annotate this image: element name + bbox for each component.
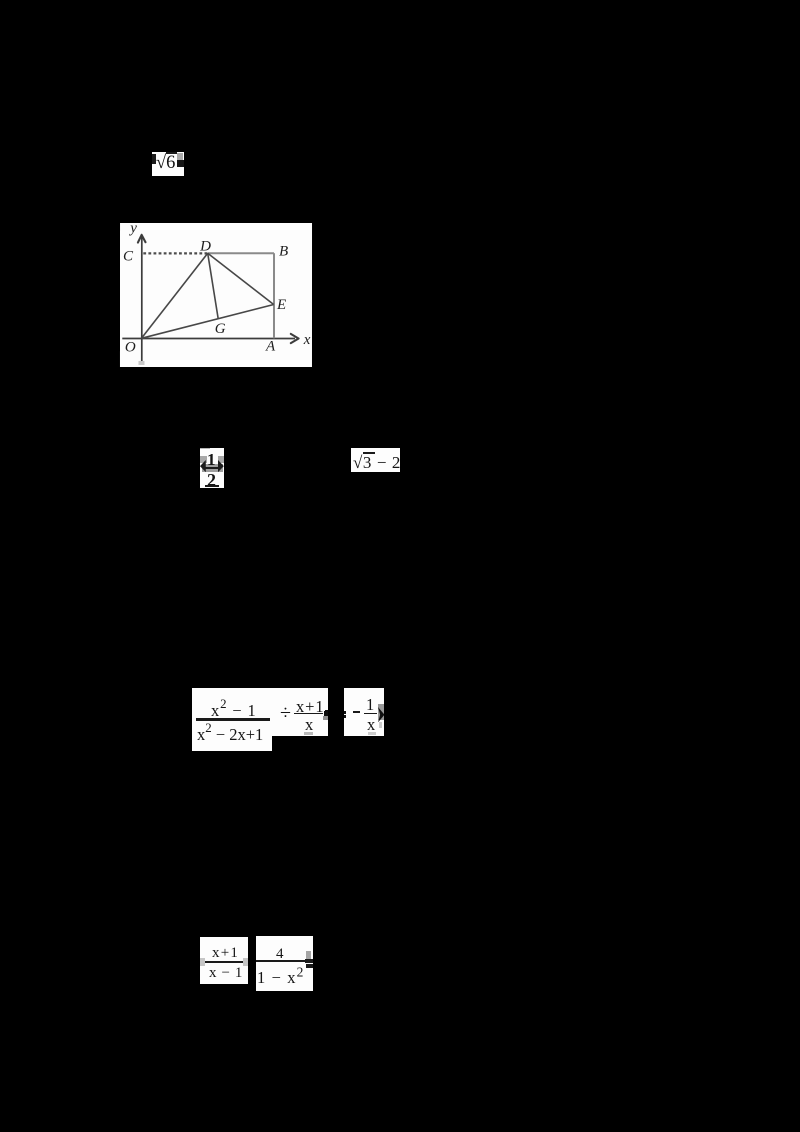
left arrowhead xyxy=(200,460,206,472)
fraction bar of 1/x xyxy=(364,713,378,714)
gray top edge xyxy=(200,448,210,450)
clipped glyph nubs at left edge xyxy=(344,711,346,714)
denominator x xyxy=(305,717,313,734)
gray arrow shaft xyxy=(202,464,223,472)
gray smudge left xyxy=(200,958,206,966)
gray band left xyxy=(200,456,207,463)
gray band right xyxy=(218,456,224,463)
y-axis gray stub at bottom xyxy=(138,360,144,364)
small fraction bar xyxy=(294,713,324,715)
svg-text:G: G xyxy=(214,320,225,336)
formula image: 2√6 xyxy=(152,152,184,176)
rectangle side BA (right) xyxy=(272,253,274,338)
gray square under x xyxy=(368,732,376,735)
fraction bar xyxy=(196,718,270,720)
geometry figure: rectangle OABC with D,E,G xyxy=(119,222,312,366)
numerator x²−1 xyxy=(211,703,257,720)
line DG xyxy=(207,253,218,319)
gray block top-right of √6 patch xyxy=(177,153,183,160)
numerator 1 xyxy=(207,451,216,468)
svg-text:x: x xyxy=(302,331,310,347)
light gray block bottom right xyxy=(379,722,383,728)
denominator 1 − x² xyxy=(257,969,304,986)
vinculum over 3 xyxy=(363,452,375,454)
underline below 2 xyxy=(205,485,220,487)
gray square below blob xyxy=(323,716,328,720)
gray column right edge xyxy=(378,704,384,720)
clipped glyph left of √6 xyxy=(152,154,156,163)
numerator 1 xyxy=(366,697,374,714)
formula image: − 1/x with bold bracket xyxy=(344,688,384,736)
svg-text:D: D xyxy=(199,238,211,254)
denominator x − 1 xyxy=(209,966,243,981)
division sign xyxy=(280,703,291,723)
fraction bar of 1/2 xyxy=(204,467,220,469)
formula image: (x²−1)/(x²−2x+1) ÷ (x+1)/x xyxy=(192,688,328,736)
right arrowhead xyxy=(218,460,224,472)
formula image: (x+1)/(x−1) xyxy=(200,937,248,985)
formula image: 1/2 with resize arrows xyxy=(200,448,224,488)
line OE xyxy=(141,304,273,338)
clipped black glyph at patch edge xyxy=(324,711,328,716)
svg-text:B: B xyxy=(279,243,288,259)
x-axis xyxy=(122,337,295,339)
minus sign xyxy=(353,711,360,713)
svg-text:E: E xyxy=(275,297,285,313)
radical sign √3 xyxy=(353,454,401,471)
rectangle side DB (top) xyxy=(207,252,273,254)
fraction bar xyxy=(256,960,305,962)
denominator 2 xyxy=(206,470,215,488)
formula image: √3 − 2 xyxy=(351,448,400,472)
numerator x+1 xyxy=(296,699,325,716)
denominator x xyxy=(367,717,375,734)
fraction bar xyxy=(205,961,243,963)
bold clipped bracket xyxy=(378,707,385,722)
svg-text:A: A xyxy=(264,338,275,354)
vinculum over 6 xyxy=(166,152,177,154)
formula image: 4/(1−x²) with clipped equals xyxy=(256,936,313,991)
clipped equals sign bottom bar xyxy=(306,964,313,968)
line OD xyxy=(141,253,207,338)
numerator x+1 xyxy=(212,946,239,961)
line DE xyxy=(207,253,273,304)
svg-text:C: C xyxy=(123,248,134,264)
gray square under x xyxy=(304,732,313,736)
black clipped glyph right of √6 xyxy=(177,160,184,167)
clipped equals sign top bar xyxy=(305,959,313,963)
radical sign √6 xyxy=(156,154,175,173)
numerator 4 xyxy=(276,947,284,962)
denominator x²−2x+1 xyxy=(197,727,263,744)
gray square above equals xyxy=(306,951,312,960)
gray smudge right xyxy=(243,958,248,966)
dotted segment CD xyxy=(143,252,207,254)
svg-text:O: O xyxy=(124,339,135,355)
y-axis xyxy=(140,235,142,361)
